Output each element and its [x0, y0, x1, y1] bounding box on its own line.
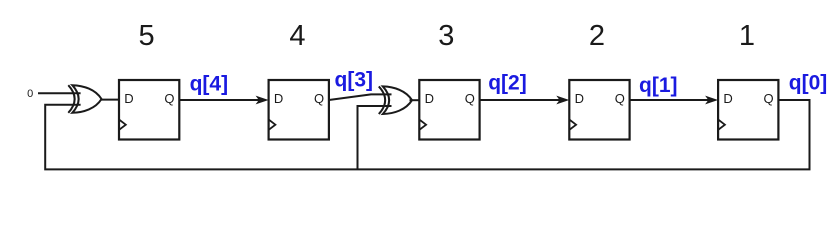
- svg-text:3: 3: [438, 20, 454, 52]
- svg-text:2: 2: [589, 20, 605, 52]
- svg-text:D: D: [575, 91, 584, 106]
- svg-text:q[4]: q[4]: [190, 73, 229, 96]
- svg-text:q[0]: q[0]: [789, 71, 828, 94]
- svg-text:4: 4: [289, 20, 305, 52]
- svg-text:q[1]: q[1]: [639, 74, 678, 97]
- svg-text:Q: Q: [465, 91, 475, 106]
- svg-text:1: 1: [739, 20, 755, 52]
- svg-text:D: D: [124, 91, 133, 106]
- svg-text:q[2]: q[2]: [488, 71, 527, 94]
- svg-text:D: D: [274, 91, 283, 106]
- svg-text:q[3]: q[3]: [335, 68, 374, 91]
- svg-text:Q: Q: [164, 91, 174, 106]
- svg-text:0: 0: [27, 88, 33, 100]
- svg-text:Q: Q: [615, 91, 625, 106]
- svg-text:D: D: [723, 91, 732, 106]
- svg-text:5: 5: [139, 20, 155, 52]
- svg-text:Q: Q: [314, 91, 324, 106]
- svg-text:D: D: [425, 91, 434, 106]
- svg-text:Q: Q: [764, 91, 774, 106]
